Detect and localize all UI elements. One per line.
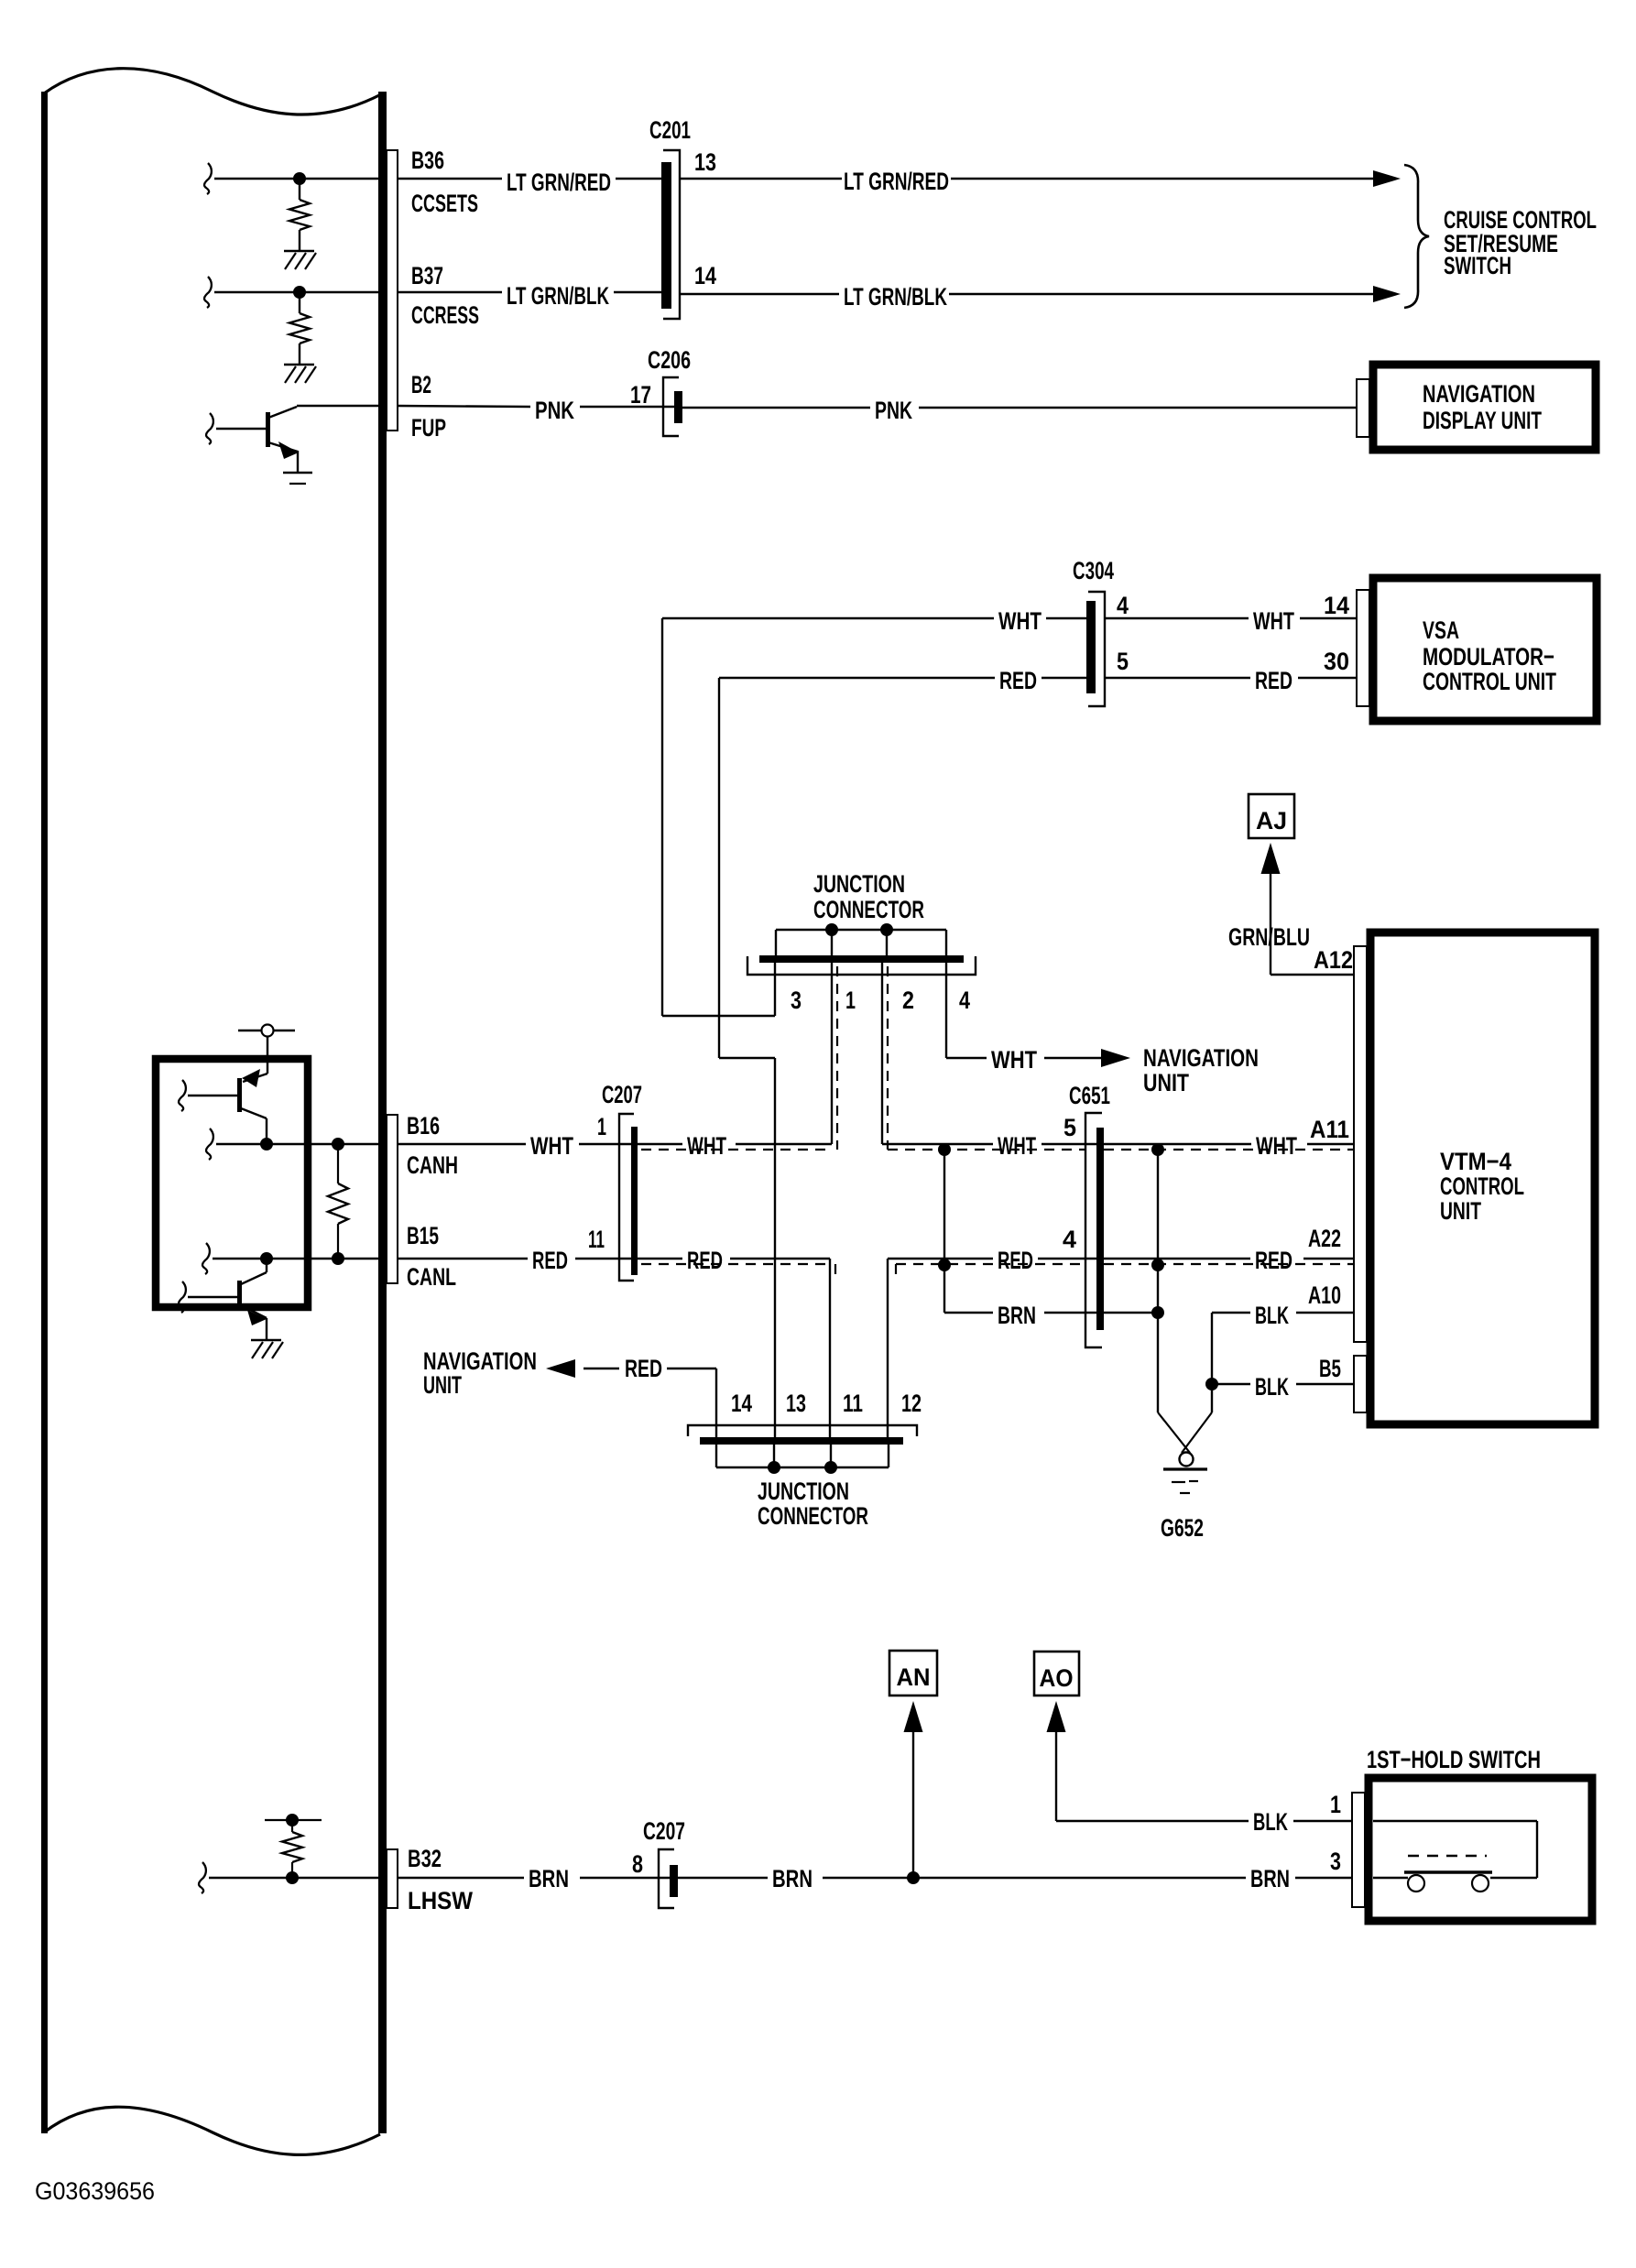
svg-text:G03639656: G03639656: [35, 2177, 155, 2205]
svg-text:1ST−HOLD SWITCH: 1ST−HOLD SWITCH: [1367, 1746, 1541, 1773]
VTM-4 CONTROL UNIT box: [1370, 932, 1595, 1424]
NAVIGATION DISPLAY UNIT box: [1373, 365, 1596, 450]
svg-text:C207: C207: [602, 1081, 642, 1108]
arrow to cruise switch (lower): [1373, 286, 1401, 302]
VSA MODULATOR-CONTROL UNIT box: [1373, 578, 1597, 721]
CAN driver block box: [156, 1059, 308, 1307]
pull resistor on CCSETS: [299, 179, 300, 200]
shield drain (right) down to ground: [1157, 1150, 1159, 1412]
junction connector (lower) bus loop: [715, 1445, 717, 1467]
svg-text:WHT: WHT: [1253, 607, 1294, 635]
ground (hatched) for Q3 emitter: [251, 1339, 281, 1341]
connector C304: [1086, 601, 1096, 693]
svg-text:JUNCTION: JUNCTION: [813, 870, 905, 898]
svg-text:30: 30: [1324, 648, 1349, 675]
svg-text:CANL: CANL: [407, 1263, 456, 1291]
svg-text:B15: B15: [407, 1222, 439, 1249]
svg-text:G652: G652: [1161, 1514, 1204, 1542]
wire BLK B5: [1212, 1383, 1250, 1385]
control module body right border: [378, 92, 387, 2133]
svg-text:BRN: BRN: [998, 1302, 1036, 1329]
svg-text:PNK: PNK: [875, 397, 912, 424]
wire RED C207 to lower JC11 (solid+shield): [638, 1258, 682, 1259]
svg-text:RED: RED: [687, 1247, 723, 1274]
wire BRN C207 to 1st-hold switch: [678, 1877, 768, 1879]
ground G652 symbol: [1180, 1453, 1194, 1467]
connector C207: [619, 1114, 634, 1281]
wire LT GRN/RED (left of C201): [398, 178, 502, 180]
svg-text:C207: C207: [643, 1817, 685, 1845]
svg-text:UNIT: UNIT: [1440, 1197, 1481, 1225]
svg-text:A10: A10: [1308, 1281, 1341, 1309]
junction dot pin 1 (upper JC): [825, 923, 838, 936]
junction connector (upper) bus loop: [776, 929, 946, 931]
arrow to navigation unit (right): [1101, 1049, 1130, 1067]
wire WHT (C304 to VSA): [1105, 617, 1249, 619]
wire WHT JC4 to navigation unit: [945, 963, 947, 1058]
wire LHSW internal: [199, 1862, 206, 1893]
wire WHT C207 to JC1 (solid+shield): [638, 1143, 682, 1145]
wire RED to C304: [719, 677, 995, 679]
wire RED right segment to C651 (solid+shield): [888, 1258, 993, 1259]
svg-text:RED: RED: [1255, 1247, 1292, 1274]
ground (hatched) for CCRESS resistor: [284, 364, 314, 365]
svg-text:17: 17: [630, 381, 651, 409]
wire LT GRN/BLK (left of C201): [398, 291, 502, 293]
svg-text:MODULATOR−: MODULATOR−: [1423, 643, 1554, 671]
svg-text:1: 1: [597, 1113, 606, 1140]
svg-text:B32: B32: [408, 1845, 442, 1872]
svg-text:C651: C651: [1069, 1082, 1110, 1109]
wire BRN B32 to C207: [398, 1877, 524, 1879]
junction dot CANH (at resistor): [332, 1138, 344, 1150]
junction dot pin 13 (lower JC): [768, 1461, 780, 1474]
switch detent dashed: [1408, 1855, 1487, 1857]
wire CANH internal: [206, 1129, 213, 1160]
svg-text:13: 13: [786, 1390, 806, 1417]
svg-text:A11: A11: [1310, 1116, 1349, 1143]
svg-text:NAVIGATION: NAVIGATION: [1143, 1044, 1259, 1072]
svg-text:14: 14: [1324, 592, 1349, 619]
connector pin block B16/B15: [387, 1115, 398, 1283]
svg-text:CONTROL UNIT: CONTROL UNIT: [1423, 668, 1556, 695]
control module body top torn edge: [44, 69, 381, 114]
svg-text:14: 14: [694, 262, 716, 289]
wire WHT B16 to C207: [398, 1143, 526, 1145]
junction dot BLK: [1205, 1378, 1218, 1390]
wire RED drop to lower JC pin 11: [829, 1259, 831, 1437]
svg-text:2: 2: [902, 987, 914, 1014]
svg-text:LT GRN/BLK: LT GRN/BLK: [844, 283, 947, 311]
junction dot BRN/AN: [907, 1871, 920, 1884]
wire RED B15 to C207: [398, 1258, 528, 1259]
svg-text:BRN: BRN: [529, 1865, 569, 1892]
wire RED C651 to A22 (solid+shield): [1104, 1258, 1250, 1259]
switch internals: [1373, 1820, 1537, 1822]
connector C201: [661, 162, 671, 309]
svg-text:BLK: BLK: [1253, 1808, 1288, 1836]
connector C206: [663, 377, 679, 436]
switch contact terminals: [1408, 1875, 1424, 1892]
svg-text:RED: RED: [999, 667, 1037, 694]
junction dot on CCRESS wire: [293, 286, 306, 299]
arrow up to AJ: [1261, 843, 1281, 874]
control module body bottom torn edge: [44, 2107, 380, 2154]
connector destination box AN: [889, 1651, 937, 1696]
wire WHT JC2 to C651 (solid+shield): [882, 1143, 993, 1145]
svg-text:B36: B36: [411, 147, 444, 174]
junction connector (lower) bar: [700, 1437, 903, 1445]
svg-text:LT GRN/BLK: LT GRN/BLK: [507, 282, 609, 310]
svg-text:LT GRN/RED: LT GRN/RED: [507, 169, 611, 196]
svg-text:RED: RED: [1255, 667, 1292, 694]
svg-text:RED: RED: [625, 1355, 662, 1382]
1st-hold switch connector tab: [1352, 1793, 1365, 1907]
wire WHT to C304: [662, 617, 994, 619]
control module body left border: [41, 92, 48, 2133]
svg-text:LHSW: LHSW: [408, 1887, 473, 1914]
svg-text:B37: B37: [411, 262, 443, 289]
svg-text:12: 12: [901, 1390, 922, 1417]
svg-text:PNK: PNK: [535, 397, 574, 424]
transistor Q2 (CANH): [243, 1074, 267, 1082]
wire LT GRN/RED (right of C201): [680, 178, 842, 180]
junction dot RED shield (right of C651): [1151, 1259, 1164, 1271]
junction dot CANH (inside box): [260, 1138, 273, 1150]
wire CCRESS internal: [204, 277, 212, 308]
junction connector (lower) bracket: [688, 1425, 917, 1436]
termination resistor CANH-CANL: [337, 1144, 339, 1183]
svg-text:8: 8: [632, 1850, 643, 1878]
svg-text:CONNECTOR: CONNECTOR: [758, 1502, 868, 1530]
VSA connector tab: [1357, 590, 1369, 706]
svg-text:RED: RED: [998, 1247, 1033, 1274]
svg-text:5: 5: [1063, 1114, 1076, 1141]
junction dot pin 2 (upper JC): [880, 923, 893, 936]
svg-text:C201: C201: [649, 116, 691, 144]
shield drain wire to BRN: [943, 1150, 945, 1313]
wire BLK A10: [1212, 1312, 1250, 1314]
VTM-4 connector tab B: [1354, 1356, 1367, 1412]
svg-text:1: 1: [1330, 1791, 1341, 1818]
svg-text:CONNECTOR: CONNECTOR: [813, 896, 924, 923]
junction dot pin 11 (lower JC): [824, 1461, 837, 1474]
wire GRN/BLU to A12: [1270, 871, 1271, 975]
connector pin block B32: [387, 1849, 398, 1908]
svg-text:UNIT: UNIT: [423, 1371, 462, 1399]
junction dot CANL (at resistor): [332, 1252, 344, 1265]
svg-text:C304: C304: [1073, 557, 1114, 584]
svg-text:3: 3: [1330, 1848, 1341, 1875]
arrow up to AN: [904, 1701, 923, 1732]
wire BLK AO to 1st-hold switch: [1055, 1729, 1057, 1821]
svg-text:CANH: CANH: [407, 1151, 458, 1179]
svg-text:NAVIGATION: NAVIGATION: [1423, 380, 1535, 408]
svg-text:4: 4: [959, 987, 970, 1014]
switch movable contact bar: [1404, 1870, 1492, 1873]
transistor Q3 (CANL): [266, 1259, 267, 1272]
wire PNK (left of C206): [398, 406, 530, 407]
arrow to navigation unit (left): [546, 1359, 575, 1378]
junction dot on CCSETS wire: [293, 172, 306, 185]
svg-text:11: 11: [588, 1226, 605, 1253]
svg-text:FUP: FUP: [411, 414, 446, 442]
svg-text:JUNCTION: JUNCTION: [758, 1477, 849, 1505]
svg-text:A12: A12: [1314, 946, 1353, 974]
wire CANL internal: [202, 1243, 210, 1274]
svg-text:CONTROL: CONTROL: [1440, 1172, 1524, 1200]
svg-text:VTM−4: VTM−4: [1440, 1148, 1511, 1175]
svg-text:B16: B16: [407, 1112, 440, 1139]
svg-text:4: 4: [1063, 1226, 1076, 1253]
svg-text:BLK: BLK: [1255, 1302, 1289, 1329]
svg-text:13: 13: [694, 148, 716, 176]
junction connector (upper) bracket: [747, 956, 976, 975]
brace for cruise control switch: [1404, 165, 1429, 308]
wire PNK (right of C206): [682, 407, 870, 409]
connector pin block B36/B37/B2: [387, 150, 398, 431]
wire RED to navigation unit (lower): [715, 1368, 717, 1437]
svg-text:AO: AO: [1040, 1664, 1074, 1692]
NAVIGATION DISPLAY UNIT connector tab: [1357, 379, 1369, 437]
svg-text:BRN: BRN: [1250, 1865, 1290, 1892]
svg-text:14: 14: [731, 1390, 752, 1417]
wire JC1 drop to WHT pair: [831, 963, 833, 1144]
svg-text:WHT: WHT: [998, 607, 1042, 635]
1ST-HOLD SWITCH box: [1369, 1778, 1592, 1921]
junction dot LHSW wire: [286, 1871, 299, 1884]
svg-text:WHT: WHT: [530, 1132, 573, 1160]
svg-text:B5: B5: [1319, 1355, 1341, 1382]
svg-text:WHT: WHT: [687, 1132, 726, 1160]
svg-text:GRN/BLU: GRN/BLU: [1228, 923, 1310, 951]
svg-text:UNIT: UNIT: [1143, 1069, 1189, 1096]
wire JC2 drop to WHT pair (right): [881, 963, 883, 1144]
svg-text:SWITCH: SWITCH: [1444, 252, 1511, 279]
svg-text:LT GRN/RED: LT GRN/RED: [844, 168, 949, 195]
ground wires X to G652: [1211, 1384, 1213, 1412]
svg-text:WHT: WHT: [991, 1046, 1037, 1074]
pull resistor on CCRESS: [299, 292, 300, 313]
connector destination box AO: [1034, 1652, 1079, 1696]
svg-text:CCSETS: CCSETS: [411, 190, 478, 217]
wire RED C304-to-lower-JC13: [718, 678, 720, 1058]
junction dot WHT shield (right of C651): [1151, 1143, 1164, 1156]
ground (two-bar) for Q1 emitter: [283, 472, 312, 474]
junction dot CANL (inside box): [260, 1252, 273, 1265]
svg-text:VSA: VSA: [1423, 616, 1459, 644]
wire CCSETS internal: [204, 163, 212, 194]
wire WHT C304-to-JC3: [661, 618, 663, 1016]
svg-text:A22: A22: [1308, 1225, 1341, 1252]
wire LT GRN/BLK (right of C201): [680, 293, 839, 295]
connector C207 pin 8: [659, 1849, 674, 1908]
connector C651: [1085, 1113, 1102, 1347]
svg-text:11: 11: [843, 1390, 863, 1417]
wire WHT C651 to A11 (solid+shield): [1104, 1143, 1251, 1145]
connector destination box AJ: [1249, 794, 1294, 838]
arrow to cruise switch (upper): [1373, 170, 1401, 187]
svg-text:C206: C206: [648, 346, 691, 374]
junction connector (upper) bar: [759, 955, 964, 963]
svg-text:B2: B2: [411, 371, 431, 398]
wire RED (C304 to VSA): [1105, 677, 1250, 679]
svg-text:WHT: WHT: [998, 1132, 1036, 1160]
junction dot RED shield (left of C651): [938, 1259, 951, 1271]
VTM-4 connector tab A: [1354, 946, 1367, 1342]
svg-text:DISPLAY UNIT: DISPLAY UNIT: [1423, 407, 1542, 434]
svg-text:1: 1: [845, 987, 856, 1014]
svg-text:5: 5: [1117, 648, 1129, 675]
svg-text:3: 3: [791, 987, 802, 1014]
arrow up to AO: [1047, 1701, 1066, 1732]
ground (hatched) for CCSETS resistor: [284, 250, 314, 252]
svg-text:CCRESS: CCRESS: [411, 301, 479, 329]
svg-text:RED: RED: [532, 1247, 568, 1274]
pull resistor on LHSW: [265, 1819, 322, 1821]
svg-text:WHT: WHT: [1256, 1132, 1297, 1160]
svg-text:AJ: AJ: [1256, 807, 1287, 834]
transistor Q1 (FUP driver): [216, 428, 267, 430]
junction dot WHT shield (left of C651): [938, 1143, 951, 1156]
junction dot BRN shield: [1151, 1306, 1164, 1319]
svg-text:AN: AN: [897, 1663, 931, 1691]
svg-text:4: 4: [1117, 592, 1129, 619]
supply open terminal: [238, 1030, 262, 1031]
svg-text:BLK: BLK: [1255, 1373, 1289, 1401]
svg-text:BRN: BRN: [772, 1865, 813, 1892]
